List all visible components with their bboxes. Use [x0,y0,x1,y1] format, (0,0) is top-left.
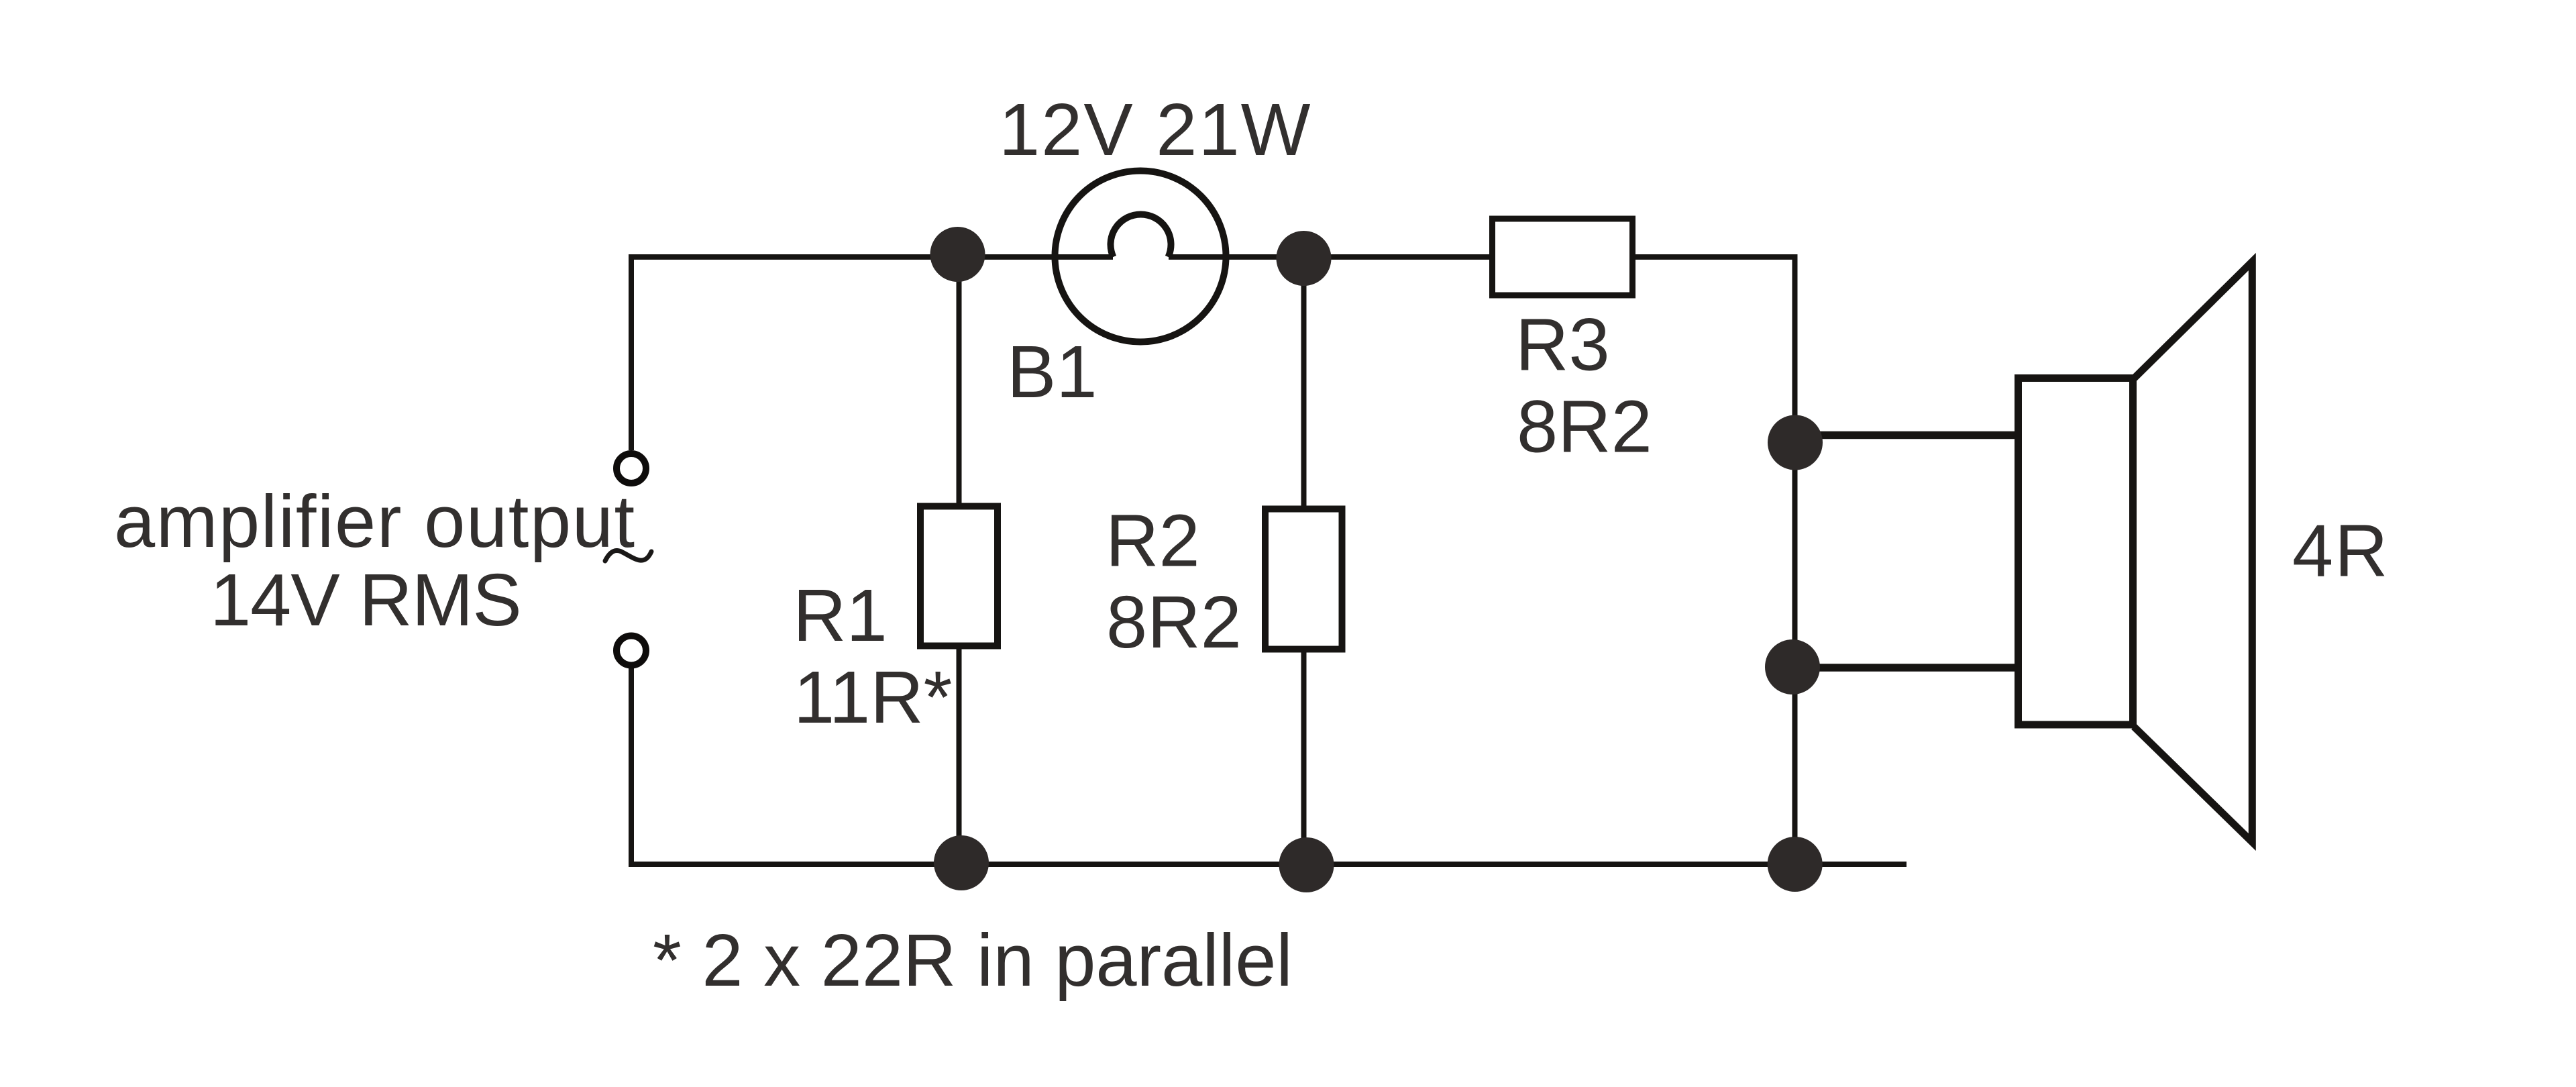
svg-text:R1: R1 [793,574,888,657]
svg-text:8R2: 8R2 [1517,386,1652,468]
svg-text:R3: R3 [1515,304,1610,386]
svg-text:amplifier output: amplifier output [114,480,636,563]
svg-text:11R*: 11R* [794,656,952,739]
svg-text:B1: B1 [1007,331,1097,413]
svg-text:R2: R2 [1106,500,1200,582]
svg-text:4R: 4R [2292,510,2390,592]
svg-text:* 2 x 22R in parallel: * 2 x 22R in parallel [653,919,1293,1002]
svg-text:12V 21W: 12V 21W [999,89,1311,171]
svg-text:14V RMS: 14V RMS [210,559,521,641]
svg-text:8R2: 8R2 [1106,581,1242,664]
